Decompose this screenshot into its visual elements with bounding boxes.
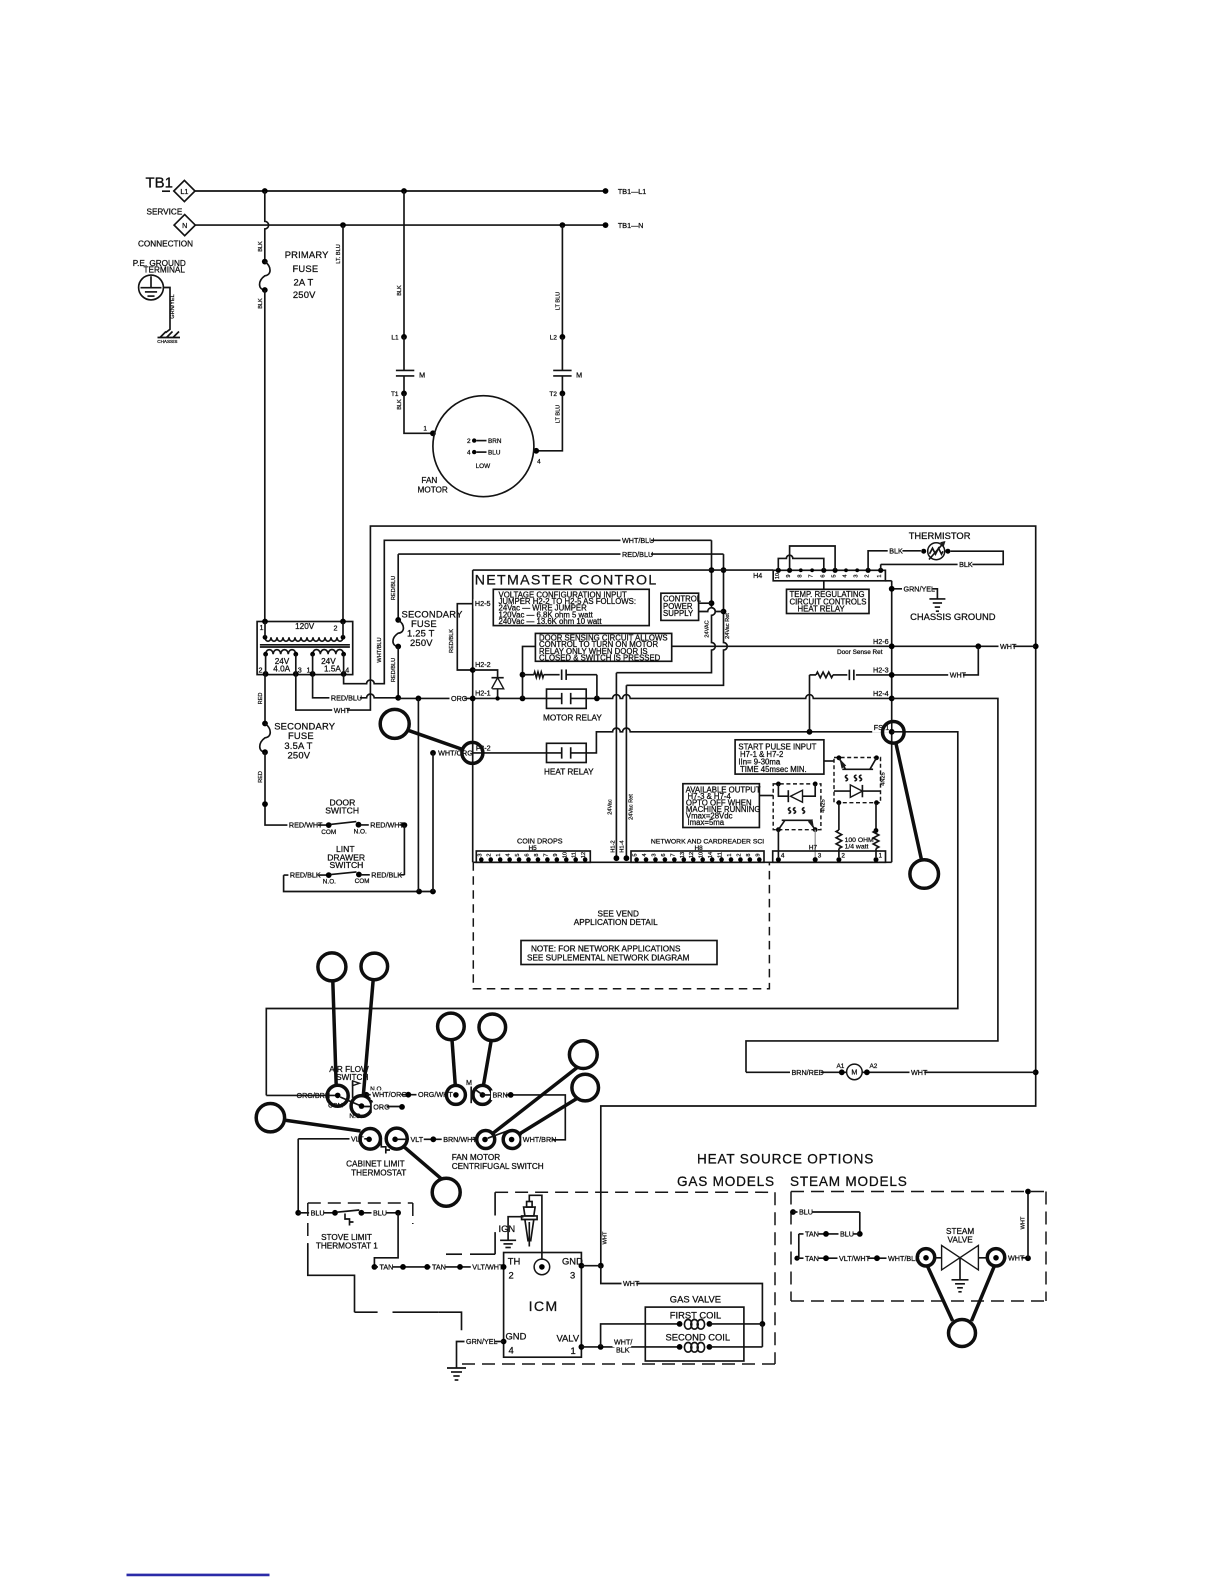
svg-text:VALV: VALV (557, 1333, 580, 1344)
svg-text:11: 11 (718, 852, 724, 858)
svg-text:ORG: ORG (451, 694, 468, 703)
svg-text:6: 6 (661, 853, 667, 856)
svg-text:SWITCH: SWITCH (325, 806, 359, 816)
svg-text:SUPPLY: SUPPLY (663, 609, 694, 618)
svg-text:SECOND COIL: SECOND COIL (666, 1332, 731, 1343)
svg-text:CHASSIS: CHASSIS (157, 339, 177, 344)
svg-text:M: M (419, 370, 425, 379)
svg-text:BLU: BLU (488, 450, 501, 457)
svg-text:1: 1 (307, 666, 311, 675)
svg-text:LOW: LOW (476, 463, 492, 470)
svg-text:2: 2 (509, 1270, 514, 1281)
svg-text:RED/WHT: RED/WHT (370, 821, 404, 830)
svg-text:CABINET LIMIT: CABINET LIMIT (346, 1159, 405, 1168)
svg-text:2A T: 2A T (294, 276, 314, 287)
svg-text:SERVICE: SERVICE (147, 207, 183, 216)
svg-text:BRN: BRN (493, 1090, 508, 1099)
svg-text:10: 10 (775, 573, 781, 579)
svg-text:PRIMARY: PRIMARY (285, 249, 329, 260)
svg-text:3: 3 (477, 853, 483, 856)
svg-text:4: 4 (345, 666, 349, 675)
svg-text:M: M (466, 1078, 472, 1087)
svg-text:HEAT RELAY: HEAT RELAY (544, 768, 594, 777)
svg-text:2: 2 (487, 853, 493, 856)
svg-text:BLU: BLU (373, 1208, 387, 1217)
svg-text:H4: H4 (753, 571, 762, 580)
svg-text:H2-3: H2-3 (873, 665, 889, 674)
svg-text:WHT/ORG: WHT/ORG (438, 748, 473, 757)
svg-text:RED/WHT: RED/WHT (289, 821, 323, 830)
svg-text:1: 1 (727, 853, 733, 856)
svg-text:WHT/BLK: WHT/BLK (888, 1254, 920, 1263)
svg-text:TAN: TAN (805, 1230, 819, 1239)
svg-text:RED/BLU: RED/BLU (391, 576, 397, 600)
svg-text:12: 12 (689, 852, 695, 858)
svg-text:250V: 250V (293, 289, 316, 300)
svg-text:N.O.: N.O. (354, 828, 367, 835)
svg-text:SEE VEND: SEE VEND (598, 910, 639, 919)
svg-text:GAS MODELS: GAS MODELS (677, 1174, 775, 1189)
svg-text:4: 4 (537, 459, 541, 466)
svg-text:NOTE: FOR NETWORK APPLICATI: NOTE: FOR NETWORK APPLICATIONS (531, 944, 681, 953)
svg-text:WHT/BRN: WHT/BRN (523, 1135, 557, 1144)
svg-text:VLT: VLT (411, 1135, 424, 1144)
svg-text:RED/BLU: RED/BLU (622, 550, 653, 559)
svg-text:SWITCH: SWITCH (330, 860, 364, 870)
svg-text:LT BLU: LT BLU (555, 292, 561, 310)
svg-text:LT. BLU: LT. BLU (336, 244, 342, 263)
svg-text:BLU: BLU (311, 1208, 325, 1217)
svg-text:CLOSED & SWITCH IS PRESSED: CLOSED & SWITCH IS PRESSED (539, 653, 661, 662)
svg-text:RED/BLK: RED/BLK (449, 629, 455, 653)
svg-text:TAN: TAN (380, 1263, 394, 1272)
svg-text:24VAC: 24VAC (704, 620, 710, 637)
svg-text:2: 2 (841, 853, 845, 860)
svg-text:1: 1 (260, 623, 264, 632)
svg-text:2: 2 (467, 438, 471, 445)
svg-text:9: 9 (553, 853, 559, 856)
svg-text:H1-2: H1-2 (611, 840, 617, 852)
svg-text:4N25: 4N25 (881, 772, 887, 785)
svg-text:H7: H7 (809, 845, 818, 852)
svg-text:1: 1 (423, 426, 427, 433)
svg-text:24Vac Ret: 24Vac Ret (628, 794, 634, 820)
svg-text:WHT: WHT (950, 670, 967, 679)
svg-text:2: 2 (334, 623, 338, 632)
svg-text:GND: GND (506, 1331, 527, 1342)
svg-text:HEAT RELAY: HEAT RELAY (798, 605, 846, 614)
svg-text:3: 3 (570, 1270, 575, 1281)
svg-text:GRN/YEL: GRN/YEL (170, 294, 176, 319)
svg-text:TERMINAL: TERMINAL (144, 266, 186, 275)
svg-text:11: 11 (572, 852, 578, 858)
svg-text:BLK: BLK (959, 560, 973, 569)
svg-text:BLK: BLK (258, 241, 264, 252)
svg-text:THERMOSTAT: THERMOSTAT (351, 1168, 406, 1177)
svg-text:BLU: BLU (799, 1208, 813, 1217)
svg-text:24Vac Ret: 24Vac Ret (725, 613, 731, 639)
svg-text:8: 8 (797, 574, 803, 577)
svg-text:H2-4: H2-4 (873, 689, 889, 698)
svg-text:250V: 250V (288, 749, 311, 760)
svg-text:VALVE: VALVE (948, 1235, 974, 1244)
svg-text:Imax=5ma: Imax=5ma (688, 818, 725, 827)
svg-text:BLK: BLK (258, 298, 264, 309)
svg-text:1.5A: 1.5A (324, 665, 341, 674)
svg-text:8: 8 (534, 853, 540, 856)
svg-text:1/4 watt: 1/4 watt (845, 843, 869, 850)
svg-text:RED/BLU: RED/BLU (391, 658, 397, 682)
svg-text:H2-6: H2-6 (873, 637, 889, 646)
svg-text:24Vac: 24Vac (608, 799, 614, 815)
svg-text:MOTOR RELAY: MOTOR RELAY (543, 714, 602, 723)
svg-text:WHT/ORG: WHT/ORG (372, 1090, 407, 1099)
svg-text:BLU: BLU (840, 1230, 854, 1239)
svg-text:N.C.: N.C. (349, 1113, 362, 1120)
svg-text:H5: H5 (529, 845, 538, 852)
svg-text:WHT: WHT (602, 1231, 608, 1244)
svg-text:2: 2 (259, 666, 263, 675)
svg-text:A1: A1 (837, 1063, 845, 1070)
svg-text:RED: RED (258, 771, 264, 783)
svg-text:4: 4 (506, 853, 512, 856)
svg-text:T1: T1 (391, 391, 399, 398)
svg-text:7: 7 (809, 574, 815, 577)
svg-text:COIN DROPS: COIN DROPS (517, 837, 563, 846)
svg-text:H2-1: H2-1 (475, 689, 491, 698)
svg-text:6: 6 (525, 853, 531, 856)
svg-text:RED: RED (258, 693, 264, 705)
svg-text:1: 1 (496, 853, 502, 856)
svg-text:8: 8 (746, 853, 752, 856)
svg-text:HEAT SOURCE OPTIONS: HEAT SOURCE OPTIONS (697, 1152, 874, 1167)
svg-text:7: 7 (670, 853, 676, 856)
svg-text:2: 2 (865, 574, 871, 577)
svg-text:4.0A: 4.0A (273, 665, 290, 674)
svg-text:4: 4 (467, 450, 471, 457)
svg-text:2: 2 (736, 853, 742, 856)
svg-text:10: 10 (562, 852, 568, 858)
svg-text:6: 6 (820, 574, 826, 577)
svg-text:4: 4 (509, 1345, 514, 1356)
svg-text:A2: A2 (870, 1063, 878, 1070)
svg-text:RED/BLK: RED/BLK (290, 871, 321, 880)
svg-text:BLK: BLK (889, 546, 903, 555)
svg-text:CHASSIS GROUND: CHASSIS GROUND (910, 611, 996, 622)
svg-text:L1: L1 (391, 335, 399, 342)
svg-text:WHT: WHT (1021, 1216, 1027, 1229)
svg-text:5: 5 (515, 853, 521, 856)
svg-text:TB1—N: TB1—N (618, 221, 644, 230)
svg-text:TB1: TB1 (146, 175, 174, 192)
svg-text:13: 13 (680, 852, 686, 858)
svg-text:ORG: ORG (373, 1102, 390, 1111)
svg-text:L2: L2 (550, 335, 558, 342)
svg-text:H2-5: H2-5 (475, 599, 491, 608)
svg-text:COM: COM (328, 1102, 343, 1109)
svg-text:RED/BLU: RED/BLU (331, 693, 362, 702)
svg-text:FAN: FAN (421, 476, 437, 485)
svg-text:3: 3 (298, 666, 302, 675)
svg-text:COM: COM (321, 829, 336, 836)
svg-text:WHT: WHT (623, 1279, 640, 1288)
svg-text:12: 12 (581, 852, 587, 858)
svg-text:4N25: 4N25 (821, 799, 827, 812)
svg-text:GRN/YEL: GRN/YEL (466, 1337, 498, 1346)
svg-text:M: M (576, 370, 582, 379)
svg-text:9: 9 (755, 853, 761, 856)
svg-text:STEAM MODELS: STEAM MODELS (790, 1174, 908, 1189)
svg-text:120V: 120V (295, 622, 315, 631)
svg-text:CONNECTION: CONNECTION (138, 240, 193, 249)
svg-text:TB1—L1: TB1—L1 (618, 187, 646, 196)
svg-text:N: N (182, 221, 187, 230)
svg-text:1: 1 (571, 1345, 576, 1356)
svg-text:4: 4 (642, 853, 648, 856)
svg-text:VLT/WHT: VLT/WHT (839, 1254, 871, 1263)
svg-text:MOTOR: MOTOR (418, 486, 448, 495)
svg-text:CENTRIFUGAL SWITCH: CENTRIFUGAL SWITCH (452, 1162, 544, 1171)
svg-text:IGN: IGN (499, 1223, 516, 1234)
svg-text:SEE SUPLEMENTAL NETWORK DIA: SEE SUPLEMENTAL NETWORK DIAGRAM (527, 953, 690, 962)
svg-text:LT BLU: LT BLU (555, 405, 561, 423)
svg-text:250V: 250V (410, 637, 433, 648)
svg-text:NETWORK AND CARDREADER SCI: NETWORK AND CARDREADER SCI (651, 839, 764, 846)
svg-text:H2-2: H2-2 (475, 660, 491, 669)
svg-text:FUSE: FUSE (293, 263, 319, 274)
svg-text:WHT: WHT (911, 1068, 928, 1077)
svg-text:1: 1 (877, 574, 883, 577)
svg-text:7: 7 (543, 853, 549, 856)
svg-text:RED/BLK: RED/BLK (371, 871, 402, 880)
svg-text:WHT/BLU: WHT/BLU (622, 536, 654, 545)
svg-text:3: 3 (651, 853, 657, 856)
svg-text:VLT/WHT: VLT/WHT (472, 1263, 504, 1272)
svg-text:M: M (851, 1068, 857, 1077)
svg-text:THERMOSTAT 1: THERMOSTAT 1 (316, 1241, 378, 1250)
svg-text:TH: TH (508, 1256, 521, 1267)
svg-text:WHT: WHT (1008, 1253, 1025, 1262)
svg-text:Door Sense Ret: Door Sense Ret (837, 649, 883, 656)
svg-text:H8: H8 (695, 845, 704, 852)
svg-text:4: 4 (843, 574, 849, 577)
svg-text:WHT: WHT (1000, 642, 1017, 651)
svg-text:BLK: BLK (616, 1346, 630, 1355)
svg-text:BLK: BLK (397, 399, 403, 410)
svg-text:5: 5 (633, 853, 639, 856)
svg-text:N.O.: N.O. (323, 879, 336, 886)
svg-text:3: 3 (854, 574, 860, 577)
svg-text:5: 5 (832, 574, 838, 577)
svg-text:1: 1 (879, 853, 883, 860)
svg-text:10: 10 (699, 852, 705, 858)
svg-text:9: 9 (786, 574, 792, 577)
svg-text:H1-4: H1-4 (620, 840, 626, 852)
svg-text:L1: L1 (180, 187, 188, 196)
svg-text:BRN/RED: BRN/RED (792, 1068, 824, 1077)
svg-text:TAN: TAN (805, 1254, 819, 1263)
svg-text:4: 4 (781, 853, 785, 860)
svg-text:14: 14 (708, 852, 714, 858)
svg-text:THERMISTOR: THERMISTOR (909, 530, 971, 541)
svg-text:ICM: ICM (529, 1299, 559, 1315)
svg-text:GRN/YEL: GRN/YEL (904, 585, 936, 594)
svg-text:APPLICATION DETAIL: APPLICATION DETAIL (574, 918, 658, 927)
svg-text:WHT/BLU: WHT/BLU (377, 637, 383, 662)
svg-text:GAS VALVE: GAS VALVE (670, 1294, 721, 1305)
svg-text:TIME 45msec MIN.: TIME 45msec MIN. (740, 765, 807, 774)
svg-text:NETMASTER CONTROL: NETMASTER CONTROL (475, 573, 658, 589)
svg-text:WHT: WHT (334, 706, 351, 715)
svg-text:240Vac — 13.6K ohm 10 watt: 240Vac — 13.6K ohm 10 watt (499, 617, 603, 626)
svg-text:COM: COM (355, 878, 370, 885)
svg-text:TAN: TAN (432, 1263, 446, 1272)
svg-text:T2: T2 (549, 391, 557, 398)
svg-text:BRN: BRN (488, 438, 502, 445)
svg-text:BRN/WHT: BRN/WHT (443, 1135, 477, 1144)
svg-text:3: 3 (818, 853, 822, 860)
svg-text:BLK: BLK (397, 285, 403, 296)
